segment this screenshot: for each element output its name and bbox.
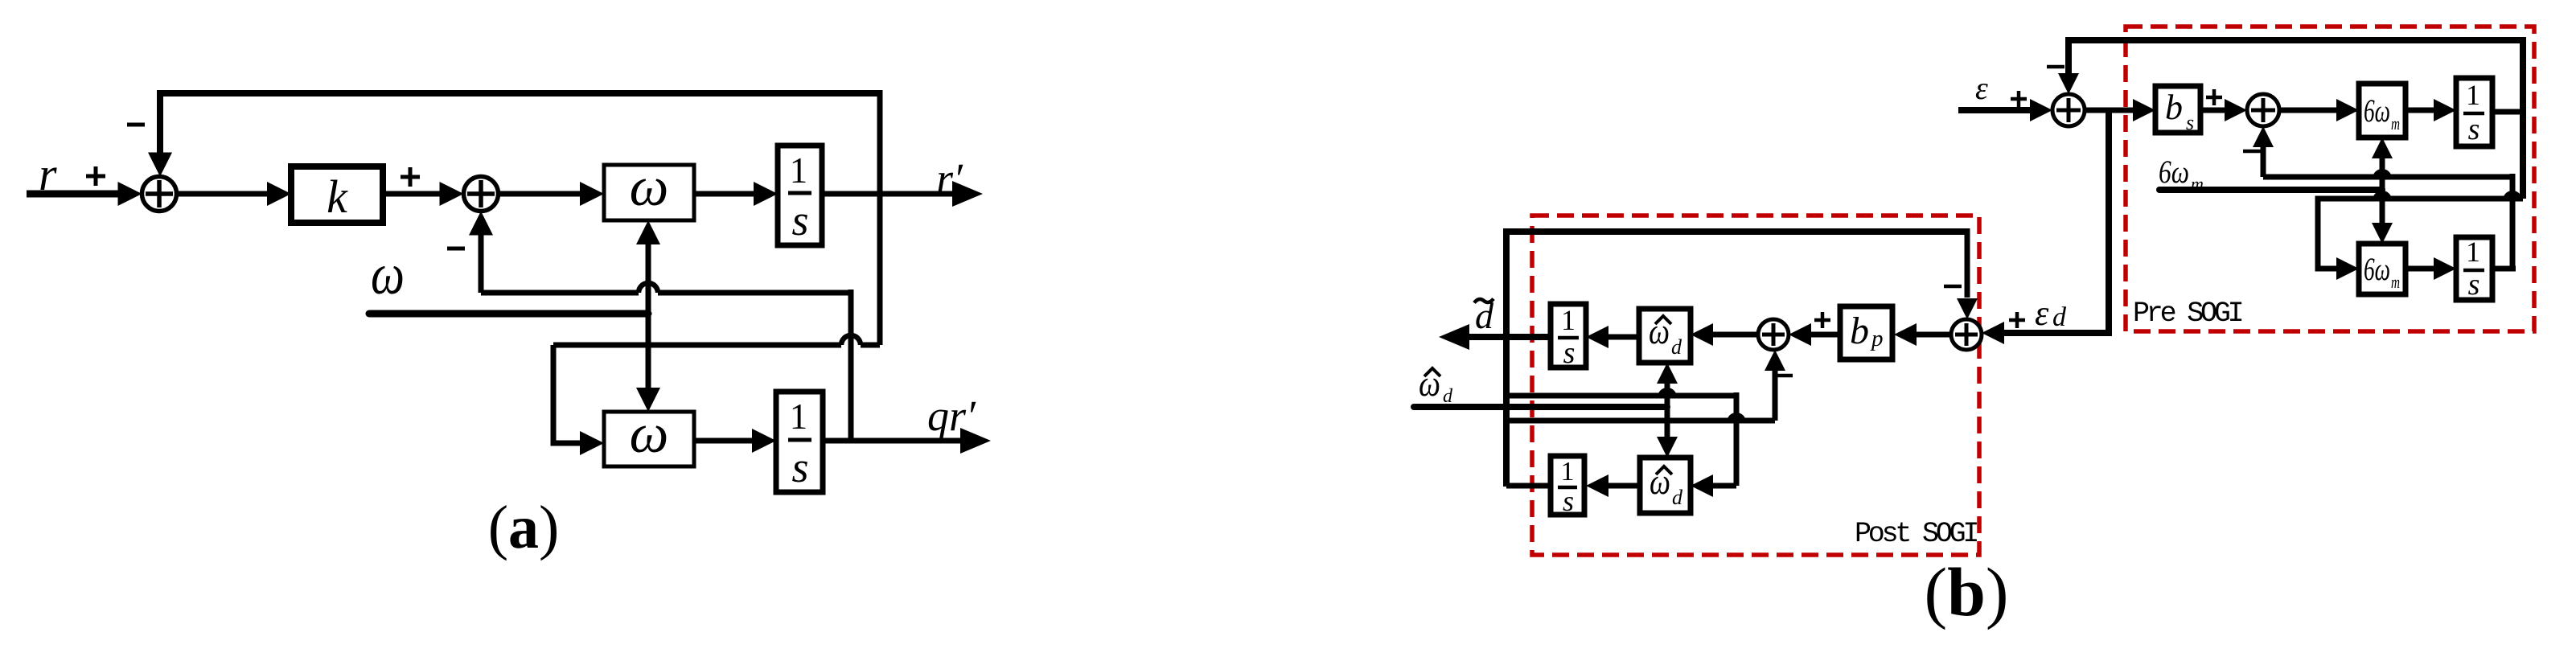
wire qr-prime feedback vertical bbox=[848, 290, 854, 441]
node crossing bump H1p over multiplier vertical bbox=[1658, 388, 1677, 397]
integrator block I3 1/s bbox=[2456, 78, 2492, 146]
svg-text:6ω: 6ω bbox=[2159, 154, 2189, 190]
multiplier block W4 omega-hat-d bbox=[1640, 458, 1691, 513]
svg-text:ω: ω bbox=[371, 242, 405, 306]
svg-text:(b): (b) bbox=[1924, 553, 2008, 630]
wire qv feedback horizontal H1 bbox=[2263, 175, 2512, 180]
svg-text:1: 1 bbox=[790, 396, 808, 437]
svg-text:ε: ε bbox=[2035, 294, 2049, 333]
wire S3 to gain bs bbox=[2085, 108, 2134, 113]
node plus sign after gain k bbox=[401, 175, 420, 179]
wire qv feedback right vertical bbox=[2510, 174, 2516, 269]
summing junction S2 bbox=[464, 177, 499, 212]
wire qv feedback into S4 bottom bbox=[2253, 126, 2274, 147]
wire top feedback Pre bbox=[2065, 37, 2523, 43]
node crossing bump H1 over multiplier vertical bbox=[2373, 169, 2392, 179]
wire omega distribution vertical bbox=[636, 220, 660, 244]
node minus sign at summer S6 bottom bbox=[1777, 374, 1793, 378]
wire M2 to integrator I4 bbox=[2405, 266, 2435, 272]
svg-text:r′: r′ bbox=[936, 154, 963, 203]
wire qr-prime feedback horizontal with hop bbox=[481, 290, 639, 296]
svg-text:s: s bbox=[2468, 268, 2480, 302]
svg-text:b: b bbox=[2165, 88, 2183, 127]
svg-text:k: k bbox=[327, 170, 348, 223]
wire 6wm input bbox=[2159, 187, 2382, 193]
svg-text:ω: ω bbox=[1649, 310, 1670, 351]
wire S5 to bp bbox=[1917, 332, 1951, 338]
wire omega input bbox=[369, 310, 648, 318]
wire I3 output to right vertical bbox=[2492, 109, 2523, 115]
svg-text:d: d bbox=[1672, 486, 1683, 509]
svg-text:Pre SOGI: Pre SOGI bbox=[2133, 298, 2242, 330]
node minus sign at summer S5 top bbox=[1944, 285, 1962, 289]
wire d-tilde to W4 right vertical bbox=[1734, 392, 1740, 486]
svg-text:s: s bbox=[1563, 336, 1576, 370]
wire r-prime to W2 left vertical bbox=[553, 345, 583, 443]
node plus sign at summer S5 input bbox=[2009, 318, 2025, 322]
wire I4 output to qv vertical bbox=[2492, 266, 2516, 272]
integrator block I5 1/s bbox=[1551, 304, 1586, 368]
wire d-tilde output bbox=[1439, 324, 1469, 350]
gain block bp bbox=[1840, 306, 1892, 359]
svg-text:1: 1 bbox=[2466, 79, 2480, 111]
summing junction S4 bbox=[2247, 94, 2279, 126]
svg-text:1: 1 bbox=[2466, 236, 2480, 268]
gain block bs bbox=[2155, 86, 2200, 133]
node minus sign at summer S2 bottom bbox=[447, 247, 465, 251]
wire r-prime output bbox=[822, 191, 952, 197]
wire top feedback horizontal bbox=[157, 90, 880, 97]
wire top feedback right vertical bbox=[877, 90, 883, 345]
multiplier block W2 omega bbox=[604, 412, 694, 466]
node plus sign at summer S1 input bbox=[86, 175, 105, 179]
wire qd feedback into S6 bottom bbox=[1765, 350, 1785, 371]
wire W2 to integrator I2 bbox=[694, 438, 755, 444]
gain block k bbox=[291, 166, 383, 223]
node plus sign after bp bbox=[1814, 318, 1830, 322]
svg-text:qr′: qr′ bbox=[927, 392, 976, 440]
wire S1 to gain k bbox=[176, 191, 270, 197]
wire r input bbox=[27, 191, 121, 198]
wire epsilon input bbox=[1958, 107, 2032, 113]
wire omega-hat-d distribution vertical bbox=[1657, 363, 1678, 384]
node plus sign at summer S3 input bbox=[2011, 97, 2027, 101]
svg-text:m: m bbox=[2391, 272, 2400, 292]
Pre SOGI dashed boundary box bbox=[2126, 27, 2534, 331]
wire epsilon-d drop vertical bbox=[2003, 110, 2109, 333]
wire S2 to multiplier W1 bbox=[498, 191, 583, 197]
wire W4 to integrator I6 bbox=[1608, 483, 1640, 489]
node minus sign at summer S1 top bbox=[127, 123, 145, 127]
wire r-prime to W2 horizontal with hop bbox=[553, 343, 841, 348]
svg-text:6ω: 6ω bbox=[2364, 92, 2390, 129]
wire k to summer S2 bbox=[383, 191, 442, 197]
wire v-prime feedback into summer S3 top bbox=[2065, 37, 2072, 74]
node minus sign at summer S3 top bbox=[2047, 65, 2064, 69]
svg-text:ω: ω bbox=[1650, 461, 1670, 502]
svg-text:1: 1 bbox=[790, 150, 808, 191]
integrator block I6 1/s bbox=[1551, 456, 1584, 515]
multiplier block M1 6wm bbox=[2359, 84, 2405, 138]
integrator block I1 1/s bbox=[778, 146, 822, 245]
svg-text:d: d bbox=[2052, 302, 2067, 332]
svg-text:ε: ε bbox=[1975, 70, 1988, 106]
svg-text:s: s bbox=[791, 196, 808, 244]
multiplier block W3 omega-hat-d bbox=[1639, 309, 1691, 363]
wire I6 output bbox=[1506, 483, 1551, 489]
summing junction S5 bbox=[1951, 319, 1982, 350]
svg-text:b: b bbox=[1850, 310, 1869, 352]
svg-text:1: 1 bbox=[1561, 457, 1575, 487]
wire top feedback Pre right vertical bbox=[2520, 37, 2526, 199]
svg-text:s: s bbox=[791, 443, 808, 491]
svg-text:m: m bbox=[2391, 113, 2400, 133]
wire Post top feedback horizontal bbox=[1506, 228, 1967, 235]
wire omega-hat-d input bbox=[1414, 404, 1667, 410]
wire M1 to integrator I3 bbox=[2405, 108, 2435, 113]
wire qr-prime feedback into S2 bottom bbox=[469, 212, 493, 236]
svg-text:ω: ω bbox=[630, 156, 669, 217]
svg-text:ω: ω bbox=[1419, 363, 1440, 404]
node crossing bump qd line over W4 input vertical bbox=[1727, 413, 1746, 422]
wire d-tilde feedback into S5 top bbox=[1965, 228, 1970, 298]
multiplier block M2 6wm bbox=[2359, 244, 2405, 294]
integrator block I4 1/s bbox=[2456, 237, 2492, 300]
svg-text:1: 1 bbox=[1561, 304, 1576, 336]
summing junction S1 bbox=[142, 177, 177, 212]
integrator block I2 1/s bbox=[776, 392, 823, 492]
svg-text:s: s bbox=[2468, 113, 2480, 146]
wire 6wm distribution vertical bbox=[2372, 138, 2393, 158]
wire bp to S6 bbox=[1811, 332, 1840, 338]
wire bs to summer S4 bbox=[2200, 108, 2226, 113]
svg-text:s: s bbox=[2186, 111, 2194, 134]
summing junction S3 bbox=[2052, 94, 2085, 126]
wire qd feedback horizontal bbox=[1506, 418, 1775, 424]
svg-text:Post SOGI: Post SOGI bbox=[1855, 518, 1977, 550]
svg-text:6ω: 6ω bbox=[2364, 251, 2390, 287]
node plus sign after gain bs bbox=[2206, 96, 2222, 100]
wire d-tilde to W4 horizontal H1p bbox=[1506, 393, 1736, 399]
summing junction S6 bbox=[1758, 319, 1789, 350]
svg-text:d: d bbox=[1671, 335, 1682, 359]
node minus sign at summer S4 bottom bbox=[2243, 150, 2261, 154]
svg-text:(a): (a) bbox=[488, 494, 560, 561]
Post SOGI dashed boundary box bbox=[1532, 216, 1979, 555]
wire W1 to integrator I1 bbox=[694, 191, 757, 197]
svg-text:r: r bbox=[39, 148, 57, 200]
svg-text:ω: ω bbox=[630, 403, 669, 464]
multiplier block W1 omega bbox=[604, 165, 694, 220]
wire minus feedback into summer S1 top bbox=[157, 90, 163, 154]
node crossing bump H2 over qv vertical bbox=[2503, 191, 2522, 200]
wire S6 to W3 bbox=[1713, 332, 1758, 338]
wire v-prime to M2 horizontal H2 bbox=[2318, 199, 2523, 269]
wire S4 to multiplier M1 bbox=[2279, 108, 2338, 113]
svg-text:s: s bbox=[1563, 485, 1574, 517]
wire Post left vertical bbox=[1503, 228, 1510, 487]
node crossing bump H2 over multiplier vertical bbox=[2373, 191, 2392, 200]
svg-text:p: p bbox=[1870, 326, 1884, 351]
wire qr-prime output bbox=[823, 438, 960, 444]
wire W3 to integrator I5 bbox=[1608, 335, 1639, 340]
